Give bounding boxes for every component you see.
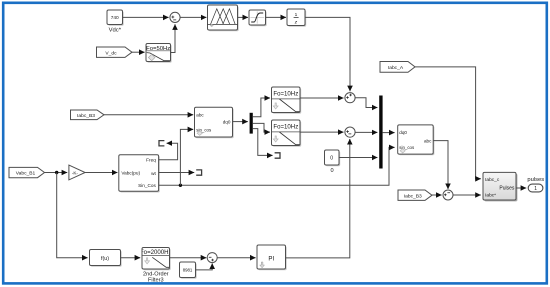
- filter F2 Fo=10Hz: [272, 120, 302, 147]
- sum S5: [207, 253, 217, 263]
- svg-text:f(u): f(u): [101, 256, 109, 262]
- svg-text:abc: abc: [424, 138, 432, 143]
- wire f(u) to filter F3: [121, 257, 141, 259]
- svg-text:Iabc*: Iabc*: [485, 193, 496, 199]
- constant 8981: [180, 262, 197, 279]
- sum S4: [443, 190, 453, 200]
- filter F3 2nd-Order Filter3: [140, 248, 172, 284]
- PLL block: [119, 155, 160, 193]
- svg-text:Freq: Freq: [146, 158, 156, 163]
- wire saturation to unit delay: [266, 16, 287, 18]
- sum S3: [345, 127, 355, 137]
- wire fuzzy to saturation: [238, 16, 249, 18]
- wire Iabc_B3 to sum S4: [432, 194, 442, 196]
- wire 0 to mux: [339, 157, 377, 159]
- svg-text:8981: 8981: [183, 268, 193, 273]
- svg-text:Vabc_B1: Vabc_B1: [16, 171, 36, 177]
- PI controller: [257, 245, 287, 270]
- from tag V_dc: [97, 47, 133, 57]
- mux: [379, 96, 382, 169]
- svg-text:Pulses: Pulses: [499, 186, 515, 192]
- wire Iabc_B3 to abc port: [104, 114, 193, 116]
- svg-text:740: 740: [111, 15, 119, 21]
- wire Vabc_B1 down to f(u): [57, 173, 88, 258]
- wire Sin_Cos main line: [159, 147, 395, 185]
- wire demux to filter F1: [253, 98, 270, 117]
- wire Sin_Cos branch up to U1 sin_cos: [180, 129, 193, 185]
- svg-text:wt: wt: [151, 171, 156, 176]
- wire F3 to sum S5: [170, 257, 207, 259]
- svg-text:Vabc(pu): Vabc(pu): [121, 171, 140, 176]
- wire Vabc_B1 to gain: [45, 172, 68, 174]
- terminator T2: [196, 170, 201, 175]
- svg-text:PI: PI: [268, 255, 274, 262]
- wire V_dc to filter: [132, 51, 145, 53]
- svg-text:Sin_Cos: Sin_Cos: [138, 183, 156, 188]
- svg-text:0: 0: [330, 155, 333, 161]
- wire U2 abc out down to sum S4: [433, 141, 448, 189]
- wire 740 to sum: [123, 16, 169, 18]
- svg-text:Fo=10Hz: Fo=10Hz: [273, 124, 298, 131]
- svg-text:Iabc_B3: Iabc_B3: [404, 193, 422, 199]
- svg-text:0: 0: [330, 168, 333, 174]
- PWM current regulator block: [483, 172, 517, 201]
- from tag Iabc_B3: [71, 110, 105, 120]
- wire 8981 up to sum S5: [196, 263, 213, 270]
- terminator T3: [275, 153, 280, 158]
- wire wt to terminator T2: [159, 172, 195, 174]
- filter Fo=50Hz: [146, 44, 172, 63]
- svg-text:Iabc_B3: Iabc_B3: [77, 113, 95, 119]
- from tag Iabc_A: [380, 62, 415, 73]
- svg-text:1: 1: [534, 186, 537, 192]
- svg-text:z: z: [294, 21, 298, 26]
- svg-text:dq0: dq0: [223, 120, 231, 125]
- from tag Vabc_B1: [9, 167, 45, 177]
- from tag Iabc_B3 (2): [398, 190, 432, 200]
- wire Freq to terminator T1: [159, 143, 178, 160]
- demux: [250, 113, 253, 134]
- wire demux to filter F2: [253, 123, 270, 132]
- junction J2: [179, 184, 182, 187]
- abc to dq0 transform U1: [195, 107, 234, 138]
- terminator T1: [159, 141, 164, 146]
- wire unit delay down to sum S2: [305, 17, 350, 91]
- Fcn f(u): [90, 250, 122, 267]
- wire S2 to mux: [355, 98, 377, 108]
- wire Iabc_A down to PWM input: [415, 67, 481, 179]
- wire PWM to outport: [516, 187, 526, 189]
- constant Vdc* (740): [107, 10, 124, 34]
- wire S3 to mux: [355, 131, 377, 133]
- svg-text:V_dc: V_dc: [105, 50, 117, 56]
- outport pulses: [527, 177, 544, 192]
- constant 0: [325, 150, 341, 174]
- wire F2 to sum S3: [300, 131, 344, 133]
- wire PI up to sum S3: [286, 139, 350, 258]
- wire demux to terminator T3: [253, 129, 273, 156]
- saturation: [249, 10, 267, 26]
- unit delay 1/z: [287, 9, 306, 27]
- gain -K-: [69, 165, 85, 180]
- svg-text:abc: abc: [196, 112, 204, 117]
- wire mux to dq0 port: [383, 132, 395, 134]
- fuzzy logic controller: [208, 5, 239, 31]
- sum S1 (Vdc* - Vdc): [170, 12, 180, 22]
- svg-text:Iabc_c: Iabc_c: [485, 177, 500, 183]
- svg-text:-K-: -K-: [72, 170, 79, 175]
- svg-text:Vdc*: Vdc*: [109, 28, 122, 34]
- wire filter up to sum S1: [171, 24, 176, 52]
- svg-text:dq0: dq0: [399, 130, 407, 135]
- wire sum to fuzzy: [180, 16, 206, 18]
- wire S5 to PI: [217, 257, 255, 259]
- wire F1 to sum S2: [300, 97, 344, 99]
- filter F1 Fo=10Hz: [272, 87, 302, 114]
- wire gain to PLL: [85, 172, 117, 174]
- junction J1: [55, 171, 58, 174]
- svg-text:Fo=10Hz: Fo=10Hz: [273, 91, 298, 98]
- sum S2: [345, 93, 355, 103]
- wire dq0 out to demux: [233, 121, 248, 123]
- svg-text:Iabc_A: Iabc_A: [388, 65, 404, 71]
- svg-text:pulses: pulses: [527, 177, 544, 183]
- svg-text:Filter3: Filter3: [148, 278, 164, 284]
- wire S4 to PWM Iabc*: [453, 194, 481, 196]
- dq0 to abc transform U2: [398, 125, 435, 155]
